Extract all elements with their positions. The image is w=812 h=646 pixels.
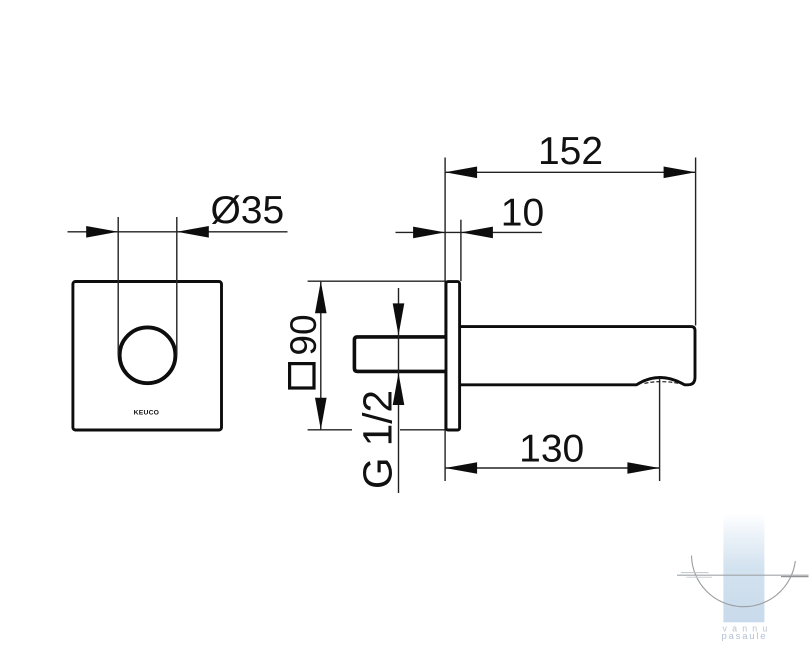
dim 90 arrow bottom	[315, 398, 327, 430]
dim 130 extension line right	[659, 378, 661, 481]
dim 152 dimension line	[445, 171, 695, 173]
dim G1/2 arrow bottom	[393, 373, 405, 405]
square symbol	[290, 364, 314, 388]
dim 90 extension line top	[308, 280, 446, 282]
dim 130 dimension line	[445, 467, 659, 469]
dim 90 dimension line	[320, 281, 322, 430]
dim G1/2 leader line	[398, 288, 400, 493]
watermark bar	[723, 513, 764, 622]
knob circle	[120, 327, 176, 383]
svg-text:KEUCO: KEUCO	[134, 410, 160, 417]
pipe stub G1/2	[354, 337, 447, 372]
svg-text:90: 90	[283, 314, 324, 355]
spout body	[460, 327, 696, 385]
dim Ø35 dimension line	[68, 231, 288, 233]
dim 10 arrow left	[413, 227, 445, 239]
dim 152 arrow left	[445, 167, 477, 179]
dim 152 extension line right	[695, 158, 697, 326]
watermark horizontal line	[677, 574, 809, 576]
dim 10 arrow right	[461, 227, 493, 239]
dim 130 arrow left	[445, 462, 477, 474]
svg-text:pasaule: pasaule	[722, 631, 768, 642]
dim 10 extension line right	[460, 220, 462, 281]
svg-text:130: 130	[519, 427, 584, 470]
dim 152 arrow right	[664, 167, 696, 179]
aerator inner dashed arc	[645, 382, 680, 384]
dim 10 dimension line	[396, 231, 542, 233]
watermark arc	[692, 556, 796, 607]
wall extension line (left of flange)	[444, 158, 446, 482]
dim Ø35 arrow left	[86, 226, 118, 238]
watermark right dark segment	[781, 576, 809, 578]
svg-text:Ø35: Ø35	[210, 189, 284, 232]
watermark faint mark lower	[687, 576, 713, 578]
dim 90 extension line bottom left part	[308, 429, 352, 431]
dim Ø35 arrow right	[177, 226, 209, 238]
wall flange plate	[446, 282, 460, 430]
dim Ø35 extension line right	[176, 217, 178, 356]
dim Ø35 extension line left	[117, 217, 119, 356]
front plate square	[73, 282, 222, 431]
dim 90 arrow top	[315, 281, 327, 313]
svg-text:152: 152	[538, 130, 603, 173]
dim 130 arrow right	[627, 462, 659, 474]
dim G1/2 arrow top	[393, 303, 405, 335]
svg-text:10: 10	[501, 191, 544, 234]
dim 90 extension line bottom right part	[400, 429, 446, 431]
svg-text:G 1/2: G 1/2	[355, 390, 401, 489]
watermark faint mark upper	[681, 572, 709, 574]
